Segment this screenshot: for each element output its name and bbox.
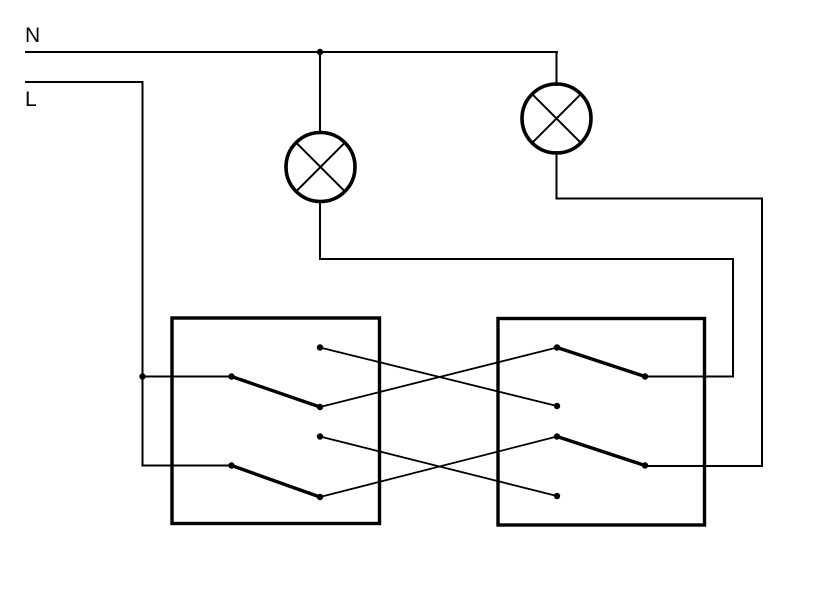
lamp E1	[286, 133, 355, 202]
node S2 lower throw A	[554, 433, 560, 439]
wire N bus	[25, 51, 558, 53]
node S1 lower throw B	[317, 494, 323, 500]
wire L feed	[25, 82, 232, 466]
wire S1 upper throw B to S2 upper throw A	[320, 348, 557, 408]
svg-text:N: N	[25, 24, 40, 47]
switch S2 lower lever	[557, 437, 645, 466]
node S1 upper throw B	[317, 404, 323, 410]
node S1 upper throw A	[317, 344, 323, 350]
switch S2 upper lever	[557, 348, 645, 377]
switch box S2	[498, 319, 705, 526]
wire lamp E1 to S2 upper output	[320, 200, 733, 377]
wire S1 lower throw B to S2 lower throw A	[320, 437, 557, 498]
node S2 lower throw B	[554, 493, 560, 499]
wire lamp E2 to S2 lower output	[557, 151, 763, 466]
wire L branch to S1 upper common	[143, 376, 232, 378]
wire N to lamp E2	[556, 51, 558, 86]
wire S1 upper throw A to S2 upper throw B	[320, 348, 557, 407]
switch S1 lower lever	[232, 466, 321, 498]
node S2 upper throw B	[554, 403, 560, 409]
node S2 upper throw A	[554, 344, 560, 350]
node L junction	[139, 373, 145, 379]
lamp E2	[522, 84, 591, 153]
node S2 lower common	[642, 462, 648, 468]
wire N to lamp E1	[319, 52, 321, 134]
node N junction	[317, 49, 323, 55]
switch S1 upper lever	[232, 377, 321, 408]
node S2 upper common	[642, 373, 648, 379]
svg-text:L: L	[25, 88, 37, 111]
node S1 lower throw A	[317, 433, 323, 439]
node S1 lower common	[228, 462, 234, 468]
node S1 upper common	[228, 373, 234, 379]
switch box S1	[172, 318, 380, 524]
wire S1 lower throw A to S2 lower throw B	[320, 437, 557, 497]
